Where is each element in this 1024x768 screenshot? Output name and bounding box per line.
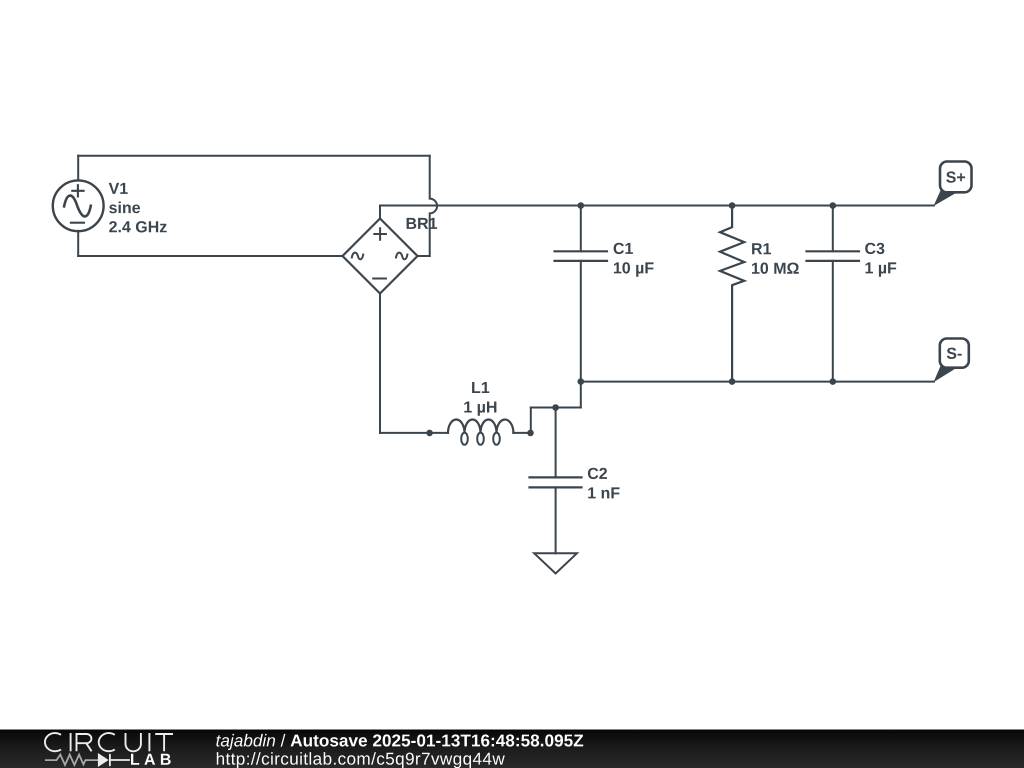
capacitor C2 — [530, 477, 582, 487]
R1 labels — [752, 243, 799, 274]
node dot C3 bottom — [830, 378, 837, 385]
node dot R1 bottom — [729, 378, 736, 385]
node dot C2 top — [552, 404, 559, 411]
flag S- — [934, 339, 969, 383]
wire V1 bottom stub — [77, 231, 79, 256]
voltage source V1 — [53, 180, 104, 231]
inductor L1 — [448, 419, 513, 444]
node dot L1 left — [426, 430, 433, 437]
wire up from L1 — [530, 408, 532, 433]
flag S+ — [934, 162, 972, 207]
CircuitLab logo wordmark CIRCUIT — [45, 733, 173, 751]
C3 labels — [865, 243, 896, 277]
wire bottom rail — [581, 381, 934, 383]
capacitor C2 wires — [555, 408, 557, 554]
wire across to C1 branch — [531, 407, 581, 409]
resistor R1 — [720, 206, 744, 382]
capacitor C1 — [555, 251, 608, 261]
capacitor C3 — [807, 251, 860, 261]
node dot R1 top — [729, 202, 736, 209]
node dot C1 top — [578, 202, 585, 209]
capacitor C3 wires — [832, 206, 834, 382]
wire vertical with hop over top rail — [430, 156, 437, 256]
wire bridge plus stub — [379, 206, 381, 219]
wire top rail — [380, 205, 934, 207]
wire bottom of bridge to L1 — [380, 432, 448, 434]
footer credit line 1 — [216, 734, 275, 750]
wire bottom-left horizontal — [78, 255, 342, 257]
C2 labels — [588, 468, 620, 499]
logo resistor-diode icon — [45, 754, 130, 766]
node dot L1 right — [527, 430, 534, 437]
ground — [534, 553, 577, 573]
footer url line 2 — [217, 752, 505, 768]
node dot C1 bottom — [578, 378, 585, 385]
C1 labels — [614, 243, 654, 277]
wire to bridge right terminal — [418, 255, 430, 257]
wire bridge minus stub down — [379, 294, 381, 433]
wire L1 right — [513, 432, 530, 434]
wire C1 vertical branch — [580, 206, 582, 408]
node dot C3 top — [830, 202, 837, 209]
CircuitLab logo wordmark LAB — [131, 754, 171, 765]
BR1 label — [407, 218, 438, 229]
bridge rectifier BR1 — [343, 219, 418, 294]
L1 labels — [464, 382, 496, 416]
wire top-left horizontal — [78, 155, 430, 157]
V1 labels — [109, 183, 167, 233]
wire V1 top stub — [77, 156, 79, 181]
